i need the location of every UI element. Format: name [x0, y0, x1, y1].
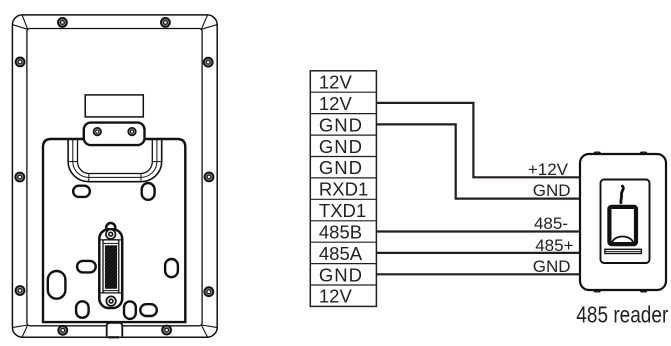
svg-text:12V: 12V [319, 286, 353, 307]
svg-text:485-: 485- [534, 214, 568, 233]
svg-text:485+: 485+ [535, 236, 573, 255]
svg-text:GND: GND [319, 264, 363, 285]
svg-text:+12V: +12V [528, 160, 569, 179]
svg-text:485 reader: 485 reader [576, 302, 668, 328]
svg-text:485A: 485A [319, 243, 363, 264]
svg-text:RXD1: RXD1 [319, 179, 368, 200]
svg-text:TXD1: TXD1 [319, 200, 366, 221]
svg-text:GND: GND [319, 114, 363, 135]
svg-text:12V: 12V [319, 72, 353, 93]
svg-text:GND: GND [533, 181, 571, 200]
svg-text:GND: GND [533, 257, 571, 276]
svg-text:GND: GND [319, 136, 363, 157]
svg-text:GND: GND [319, 157, 363, 178]
svg-text:12V: 12V [319, 93, 353, 114]
svg-text:485B: 485B [319, 221, 362, 242]
